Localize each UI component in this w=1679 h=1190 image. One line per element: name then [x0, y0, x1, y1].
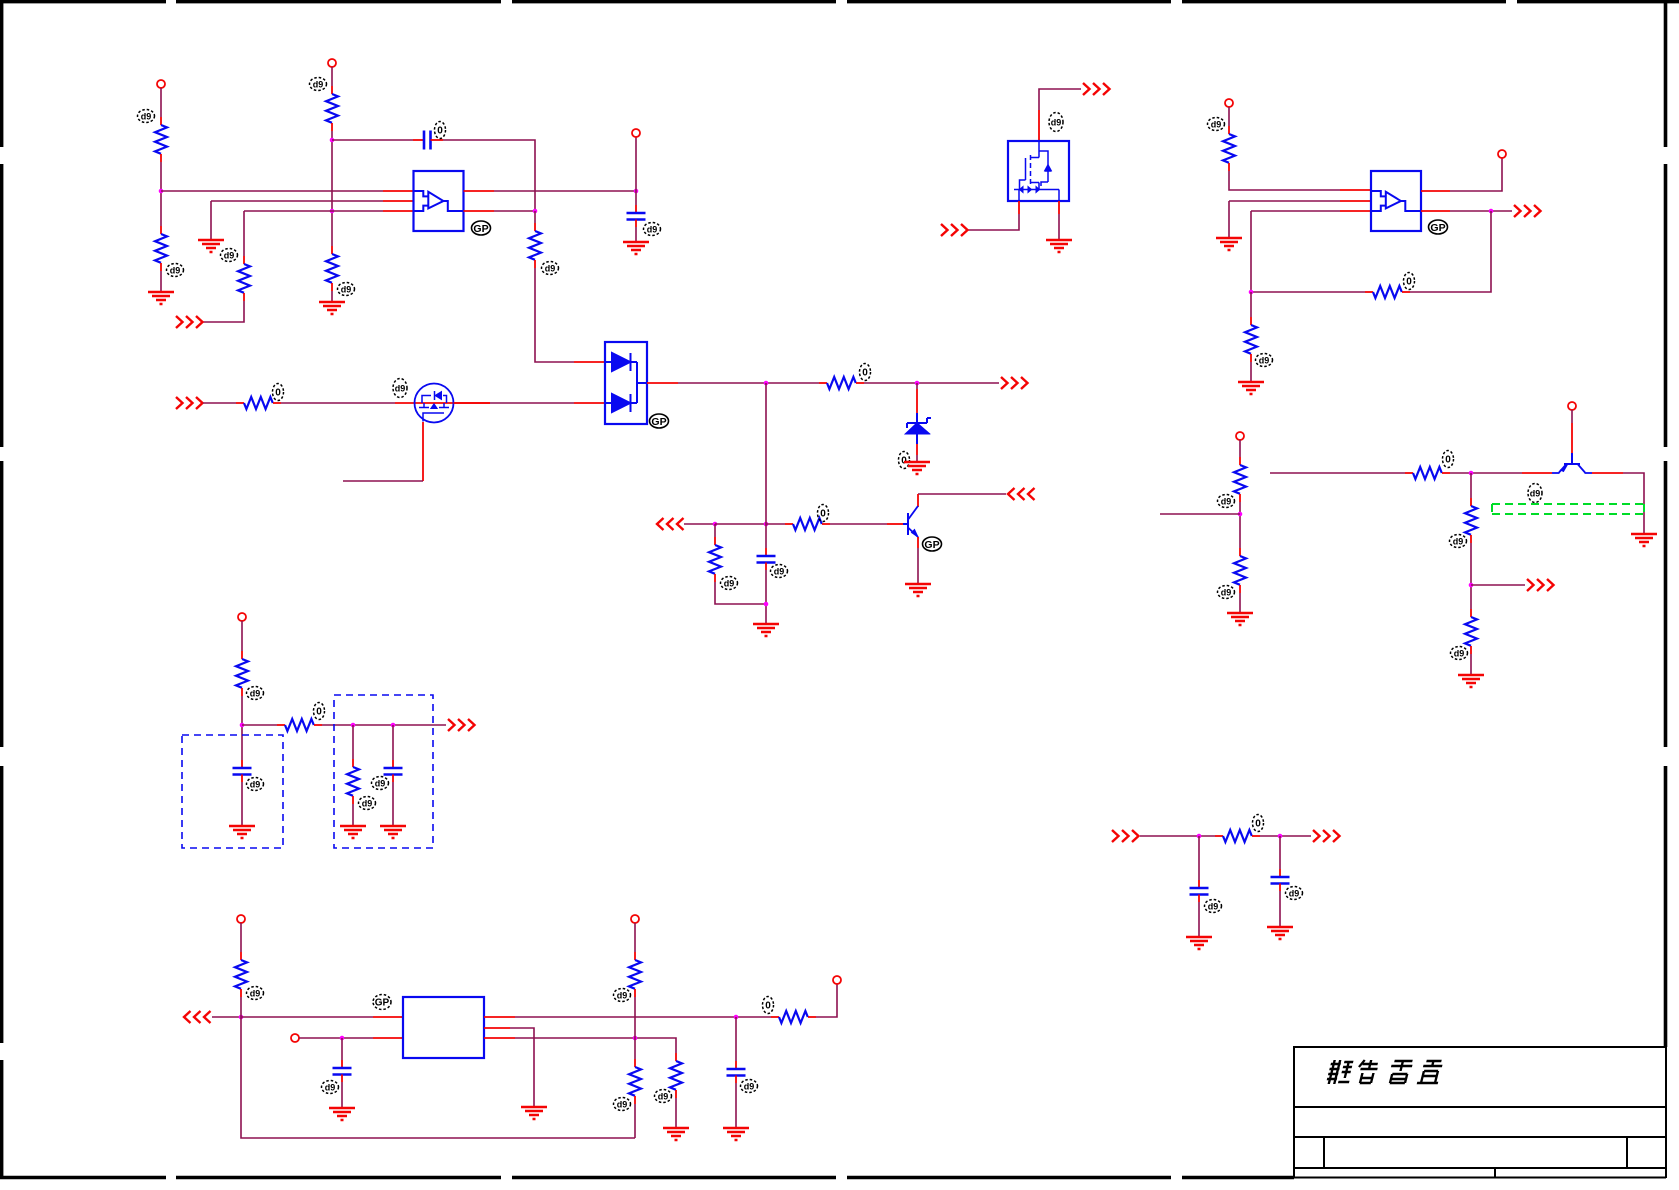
wire: [678, 382, 819, 384]
pin stub: [383, 210, 413, 212]
offpage connector: [448, 719, 475, 731]
label R26: [614, 989, 631, 1002]
wire: [1039, 89, 1081, 110]
transistor Q4 pnp: [1552, 453, 1592, 473]
wire: [510, 1028, 534, 1107]
node N2: [764, 522, 769, 527]
wire: [241, 621, 243, 651]
ground: [380, 826, 406, 838]
ground: [319, 302, 345, 314]
wire: [766, 523, 785, 525]
offpage connector: [1514, 205, 1541, 217]
resistor R5: [238, 256, 250, 301]
wire: [1160, 513, 1240, 515]
note box dashed: [1492, 504, 1644, 514]
wire: [1260, 835, 1311, 837]
capacitor C3: [757, 548, 776, 570]
wire: [211, 200, 383, 202]
wire: [352, 804, 354, 826]
capacitor C9: [727, 1061, 746, 1083]
wire: [635, 191, 637, 205]
pin stub: [1038, 110, 1040, 141]
resistor R12: [1365, 286, 1410, 298]
ground: [340, 826, 366, 838]
pin stub: [1522, 472, 1552, 474]
resistor R20: [277, 719, 322, 731]
power pin P12: [631, 915, 639, 923]
label C7: [1286, 887, 1303, 900]
label R27: [614, 1098, 631, 1111]
node GC: [734, 1015, 739, 1020]
offpage connector: [1112, 830, 1139, 842]
pin stub: [917, 494, 919, 507]
wire: [341, 1082, 343, 1108]
capacitor C1: [413, 131, 443, 150]
power pin P8: [238, 613, 246, 621]
resistor R4: [326, 246, 338, 291]
wire: [816, 984, 837, 1017]
wire: [392, 782, 394, 826]
ground: [663, 1128, 689, 1140]
wire: [765, 383, 767, 524]
label R4: [338, 283, 355, 296]
offpage connector: [1008, 488, 1035, 500]
capacitor C7: [1271, 869, 1290, 891]
ground: [1631, 534, 1657, 546]
wire: [494, 210, 535, 212]
wire: [1058, 214, 1060, 240]
label R3: [310, 78, 327, 91]
label C1: [435, 122, 446, 139]
node FB: [330, 138, 335, 143]
ground: [329, 1108, 355, 1120]
wire: [160, 88, 162, 117]
pin stub: [484, 1037, 515, 1039]
wire: [1410, 211, 1491, 292]
wire: [735, 1017, 737, 1061]
resistor R26: [629, 952, 641, 997]
capacitor C5: [384, 760, 403, 782]
node VOUT: [764, 381, 769, 386]
wire: [490, 402, 574, 404]
wire: [735, 1083, 737, 1128]
pin stub: [1421, 210, 1450, 212]
wire: [332, 139, 413, 141]
wire: [765, 524, 767, 548]
wire: [634, 1104, 636, 1138]
pin stub: [1421, 190, 1450, 192]
transistor Q3 pmos pack: [1008, 141, 1069, 201]
label R25: [655, 1090, 672, 1103]
wire: [634, 1038, 636, 1059]
node GA: [239, 1015, 244, 1020]
ground: [521, 1107, 547, 1119]
ground: [1186, 937, 1212, 949]
wire: [240, 923, 242, 952]
ground: [1216, 238, 1242, 250]
power pin P9: [237, 915, 245, 923]
wire: [916, 455, 918, 462]
pin stub: [373, 1037, 403, 1039]
node SNS: [1469, 583, 1474, 588]
pin stub: [464, 210, 495, 212]
node LC3: [391, 723, 396, 728]
ground: [1046, 240, 1072, 252]
label R22: [1253, 815, 1264, 832]
label R11: [1208, 118, 1225, 131]
wire: [1279, 891, 1281, 927]
power pin P6: [1236, 432, 1244, 440]
pin stub: [383, 200, 413, 202]
wire: [331, 67, 333, 86]
label R12: [1404, 273, 1415, 290]
wire: [244, 210, 383, 212]
node IN1: [159, 189, 164, 194]
node LC: [240, 723, 245, 728]
wire: [241, 1016, 373, 1018]
wire: [1251, 211, 1340, 292]
label Q3: [1049, 113, 1063, 132]
label R5: [221, 249, 238, 262]
pin stub: [916, 389, 918, 413]
resistor R7: [236, 397, 281, 409]
wire: [1450, 158, 1502, 191]
wire: [241, 696, 243, 760]
pin stub: [887, 523, 903, 525]
wire: [830, 523, 887, 525]
pin stub: [1018, 201, 1020, 214]
label R2: [167, 264, 184, 277]
resistor R24: [771, 1011, 816, 1023]
resistor R10: [709, 537, 721, 582]
diode D1 dual: [605, 342, 647, 424]
node OUT2: [1489, 209, 1494, 214]
label R8: [860, 364, 871, 381]
wire: [967, 214, 1019, 230]
wire: [1140, 835, 1215, 837]
label R1: [138, 110, 155, 123]
offpage connector: [1313, 830, 1340, 842]
label R10: [721, 577, 738, 590]
wire: [341, 1038, 343, 1060]
resistor R19: [236, 651, 248, 696]
capacitor C2: [627, 205, 646, 227]
ground: [723, 1128, 749, 1140]
node LC2: [351, 723, 356, 728]
wire stub drain: [454, 402, 491, 404]
wire: [343, 480, 423, 482]
wire: [494, 190, 636, 192]
transistor Q2 npn: [903, 506, 918, 537]
op-amp U2: [1371, 171, 1421, 231]
label R23: [247, 987, 264, 1000]
node FB3: [1249, 290, 1254, 295]
resistor R22: [1215, 830, 1260, 842]
offpage connector: [657, 518, 684, 530]
power pin P3: [632, 129, 640, 137]
wire: [635, 137, 637, 191]
wire: [534, 211, 536, 223]
label U1 GP: [472, 221, 491, 235]
offpage connector: [176, 316, 203, 328]
wire: [203, 402, 236, 404]
resistor R8: [819, 377, 864, 389]
resistor R2: [155, 226, 167, 271]
wire: [684, 523, 715, 525]
pin stub: [1340, 189, 1371, 191]
wire: [634, 997, 636, 1038]
resistor R23: [235, 952, 247, 997]
transistor Q1 mosfet: [415, 384, 454, 423]
capacitor C4: [233, 760, 252, 782]
node INV: [330, 209, 335, 214]
pin stub: [464, 190, 495, 192]
wire: [515, 1016, 771, 1018]
label C5: [372, 777, 389, 790]
wire: [331, 291, 333, 302]
resistor R25: [670, 1053, 682, 1098]
company logo text: [1326, 1060, 1444, 1084]
wire: [1250, 292, 1252, 317]
power pin P4: [1225, 99, 1233, 107]
wire: [1471, 584, 1525, 586]
resistor R3: [326, 86, 338, 131]
wire: [1198, 836, 1200, 880]
label C8: [322, 1081, 339, 1094]
wire: [1250, 362, 1252, 382]
wire: [675, 1098, 677, 1128]
node GB: [340, 1036, 345, 1041]
ground: [1227, 613, 1253, 625]
label Q2 GP: [923, 537, 942, 551]
pin stub: [484, 1027, 510, 1029]
pin stub: [916, 444, 918, 455]
label R19: [247, 687, 264, 700]
label U3 GP: [373, 995, 391, 1010]
wire: [918, 493, 1006, 495]
node PI2: [1278, 834, 1283, 839]
pin stub: [1571, 423, 1573, 453]
wire: [443, 140, 535, 211]
label R15: [1218, 586, 1235, 599]
wire: [634, 923, 636, 952]
resistor R1: [155, 117, 167, 162]
capacitor C8: [333, 1060, 352, 1082]
wire: [1239, 440, 1241, 457]
offpage connector: [1527, 579, 1554, 591]
node BASE: [1469, 471, 1474, 476]
resistor R16: [1405, 467, 1450, 479]
label R13: [1256, 354, 1273, 367]
label D1 GP: [650, 414, 669, 428]
wire: [1450, 210, 1512, 212]
wire: [916, 383, 918, 389]
wire: [715, 523, 766, 525]
wire: [1470, 543, 1472, 609]
wire: [243, 211, 245, 256]
node OUT: [915, 381, 920, 386]
wire: [1239, 502, 1241, 548]
ground: [905, 584, 931, 596]
power pin P5: [1498, 150, 1506, 158]
wire: [1229, 201, 1340, 238]
offpage connector: [941, 224, 968, 236]
label Q1: [393, 379, 407, 398]
resistor R17: [1465, 498, 1477, 543]
resistor R15: [1234, 548, 1246, 593]
pin stub: [1340, 210, 1371, 212]
resistor R14: [1234, 457, 1246, 502]
pin stub: [395, 402, 490, 404]
DNI box1 dashed: [182, 735, 283, 848]
wire: [714, 524, 716, 537]
wire: [1251, 291, 1365, 293]
label R21: [359, 797, 376, 810]
capacitor C6: [1190, 880, 1209, 902]
node PI1: [1197, 834, 1202, 839]
pin stub: [1058, 201, 1060, 214]
wire: [1450, 472, 1522, 474]
wire: [765, 570, 767, 624]
resistor R9: [785, 518, 830, 530]
label R24: [763, 997, 774, 1014]
wire: [241, 782, 243, 826]
wire: [160, 271, 162, 292]
regulator U3: [403, 997, 484, 1058]
wire: [160, 162, 162, 226]
node N3: [764, 602, 769, 607]
ground: [229, 826, 255, 838]
node DIV: [1238, 512, 1243, 517]
pin stub: [574, 402, 605, 404]
wire: [1270, 472, 1405, 474]
diode D2 zener: [907, 413, 932, 444]
label C4: [247, 778, 264, 791]
pin stub: [574, 361, 605, 363]
resistor R11: [1223, 126, 1235, 171]
label R20: [314, 703, 325, 720]
ground: [1458, 675, 1484, 687]
label R9: [818, 505, 829, 522]
wire: [535, 268, 574, 362]
label D2: [899, 452, 910, 469]
wire: [917, 548, 919, 584]
wire: [210, 201, 212, 240]
ground: [1267, 927, 1293, 939]
label C3: [771, 565, 788, 578]
label C9: [741, 1080, 758, 1093]
pin stub: [373, 1016, 403, 1018]
pin stub: [484, 1016, 515, 1018]
wire: [242, 724, 277, 726]
pin stub: [647, 382, 678, 384]
label R18: [1451, 647, 1468, 660]
pin stub: [1340, 200, 1371, 202]
pin stub: [917, 537, 919, 548]
label C2: [644, 223, 661, 236]
power pin P2: [328, 59, 336, 67]
wire: [1623, 473, 1644, 534]
wire: [515, 1038, 676, 1053]
label R16: [1443, 451, 1454, 468]
wire: [322, 724, 446, 726]
wire: [864, 382, 999, 384]
resistor R13: [1245, 317, 1257, 362]
resistor R27: [629, 1059, 641, 1104]
wire: [352, 725, 354, 759]
ground: [148, 292, 174, 304]
wire: [241, 997, 635, 1138]
wire: [1470, 654, 1472, 675]
node GD: [633, 1036, 638, 1041]
resistor R18: [1465, 609, 1477, 654]
node FB2: [533, 209, 538, 214]
ground: [1238, 382, 1264, 394]
power pin P10: [291, 1034, 299, 1042]
label R6: [542, 262, 559, 275]
pin stub: [1592, 472, 1623, 474]
wire: [392, 725, 394, 760]
power pin P11: [833, 976, 841, 984]
wire: [1571, 410, 1573, 423]
wire: [1470, 473, 1472, 498]
ground: [753, 624, 779, 636]
wire: [635, 227, 637, 242]
DNI box2 dashed: [334, 695, 433, 848]
node OUT1: [634, 189, 639, 194]
node N1: [713, 522, 718, 527]
resistor R21: [347, 759, 359, 804]
wire: [715, 582, 766, 604]
op-amp U1: [414, 171, 464, 231]
wire: [331, 131, 333, 246]
ground: [904, 462, 930, 474]
label C6: [1205, 900, 1222, 913]
wire: [161, 190, 383, 192]
pin stub: [383, 190, 413, 192]
offpage connector: [1083, 83, 1110, 95]
wire: [1228, 107, 1230, 126]
label Q4: [1528, 484, 1542, 503]
wire: [299, 1037, 373, 1039]
label R17: [1450, 535, 1467, 548]
offpage connector: [1001, 377, 1028, 389]
wire: [281, 402, 395, 404]
label R7: [273, 384, 284, 401]
title block frame: [1294, 1047, 1666, 1178]
label U2 GP: [1429, 220, 1448, 234]
power pin P1: [157, 80, 165, 88]
wire: [1198, 902, 1200, 937]
wire gate: [422, 422, 424, 481]
power pin P7: [1568, 402, 1576, 410]
ground: [198, 240, 224, 252]
wire: [1239, 593, 1241, 613]
resistor R6: [529, 223, 541, 268]
offpage connector: [176, 397, 203, 409]
ground: [623, 242, 649, 254]
label R14: [1218, 495, 1235, 508]
wire: [1279, 836, 1281, 869]
wire: [1229, 171, 1340, 190]
wire: [203, 301, 244, 322]
offpage connector: [184, 1011, 211, 1023]
wire: [212, 1016, 241, 1018]
